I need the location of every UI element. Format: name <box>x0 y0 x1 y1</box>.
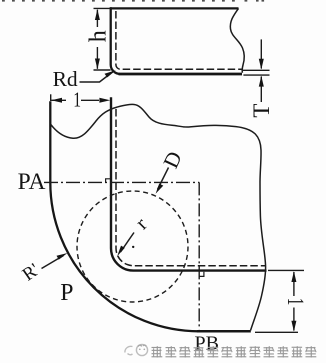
die profile big arc R' <box>50 182 199 331</box>
arrowhead of R' leader <box>57 253 68 260</box>
dimension l (bottom right): arrow down <box>291 321 296 332</box>
freehand break outline (top and right) <box>51 104 266 330</box>
dimension l (top): left extension <box>50 94 52 101</box>
leader line for r <box>121 233 135 253</box>
watermark text <box>152 346 317 357</box>
inner hidden (dashed) surface <box>116 11 242 69</box>
center dot <box>132 246 134 248</box>
dimension l (bottom right): top extension <box>268 269 304 271</box>
dimension T: upper extension line <box>243 69 270 71</box>
dimension T: line above <box>260 39 262 68</box>
dimension T: arrow down <box>259 59 264 70</box>
cropped dash row along top edge <box>2 0 264 2</box>
bottom outer surface line <box>119 73 243 76</box>
dimension h: line upper segment <box>96 10 98 27</box>
dimension T: lower extension line <box>243 74 269 76</box>
dimension h: arrow down <box>95 59 100 70</box>
sheet strip inner dashed line with bend <box>116 109 265 266</box>
svg-text:1: 1 <box>282 298 308 306</box>
centerline PA (horizontal) <box>44 181 199 183</box>
arrowhead of Rd leader <box>105 70 116 77</box>
leader line for R' <box>42 256 64 269</box>
dashed circle D <box>77 191 188 302</box>
dimension h: line lower segment <box>96 47 98 69</box>
dimension l (bottom right): lower line <box>293 308 295 331</box>
leader line for D <box>158 168 169 190</box>
dimension l (top): right arrow <box>99 98 110 103</box>
right-angle mark at PA <box>106 179 111 183</box>
arrowhead of D leader <box>156 184 164 194</box>
dimension h: top extension <box>94 7 111 9</box>
svg-text:P: P <box>60 280 73 306</box>
watermark logo <box>125 344 148 355</box>
dimension h: bottom extension <box>94 69 111 71</box>
dimension T: arrow up <box>259 76 264 87</box>
dimension l (bottom right): bottom extension <box>255 331 298 333</box>
dimension l (bottom right): upper line <box>293 272 295 296</box>
svg-text:h: h <box>85 30 111 42</box>
dimension T: line below <box>260 77 262 103</box>
leader line for Rd <box>80 72 113 82</box>
sheet strip outer vertical line with bend into flange <box>111 97 267 270</box>
svg-text:1: 1 <box>73 88 81 112</box>
right wavy break line <box>230 8 244 72</box>
arrowhead of r leader <box>117 246 125 257</box>
svg-text:PA: PA <box>18 169 46 195</box>
dimension l (bottom right): arrow up <box>291 271 296 282</box>
left edge of die <box>49 101 51 182</box>
dimension l (top): left arrow <box>51 98 62 103</box>
dimension h: arrow up <box>95 9 100 20</box>
centerline PB (vertical) <box>198 182 200 329</box>
left edge with outer bend radius Rd <box>111 7 120 74</box>
right-angle mark at PB <box>199 272 204 277</box>
bottom edge line <box>197 330 251 333</box>
svg-text:Rd: Rd <box>53 67 78 91</box>
svg-text:T: T <box>249 104 274 118</box>
top edge line <box>110 7 239 9</box>
dimension l (top): line segments <box>51 99 66 101</box>
